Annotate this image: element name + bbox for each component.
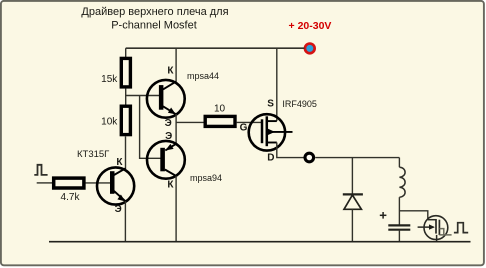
wire S to +V rail (276, 48, 278, 121)
wire input (37, 182, 52, 184)
wire diode top (351, 158, 353, 194)
wire branch to load mosfet (399, 211, 427, 220)
wire output node to inductor (315, 157, 399, 159)
svg-text:+ 20-30V: + 20-30V (289, 20, 332, 32)
transistor KT315G (77, 149, 134, 215)
wire top +V rail (126, 47, 305, 49)
resistor 10k (101, 106, 130, 134)
svg-text:G: G (240, 122, 248, 133)
wire emitter junction vertical (175, 114, 177, 144)
resistor 15k (101, 58, 130, 87)
title text (81, 6, 228, 31)
supply terminal (305, 44, 315, 54)
svg-text:К: К (116, 157, 123, 168)
wire 4.7k to KT315 base (86, 182, 111, 184)
svg-text:Драйвер верхнего плеча для: Драйвер верхнего плеча для (81, 6, 228, 18)
svg-text:КТ315Г: КТ315Г (77, 149, 109, 160)
svg-text:4.7k: 4.7k (61, 192, 81, 203)
svg-text:Э: Э (165, 131, 172, 142)
output pulse symbol (454, 223, 468, 233)
svg-text:Э: Э (165, 118, 172, 129)
input pulse symbol (34, 165, 47, 175)
svg-text:К: К (167, 180, 174, 191)
capacitor + (380, 212, 411, 230)
ground rail wire (49, 241, 471, 243)
wire base link to mpsa94 (140, 96, 161, 159)
wire D to output node (277, 143, 305, 158)
svg-text:К: К (167, 66, 174, 77)
svg-text:P-channel Mosfet: P-channel Mosfet (111, 20, 197, 32)
svg-text:D: D (267, 152, 274, 163)
wire rail to mpsa44 collector (175, 48, 177, 82)
MOSFET IRF4905 (240, 99, 317, 164)
transistor mpsa94 (PNP) (147, 131, 222, 191)
resistor 4.7k (54, 178, 84, 203)
wire base branch to mpsa44 (126, 95, 160, 97)
wire inductor to cap (398, 197, 400, 225)
load MOSFET (418, 216, 452, 242)
wire 15k to 10k (125, 88, 127, 105)
svg-text:15k: 15k (101, 74, 118, 85)
wire rail to 15k (125, 48, 127, 58)
resistor 10 (205, 104, 235, 127)
wire inductor top lead (398, 158, 400, 168)
wire resistor 10 to gate (237, 121, 261, 123)
wire cap to ground (398, 230, 400, 242)
svg-text:S: S (267, 99, 274, 110)
svg-text:mpsa44: mpsa44 (187, 71, 219, 81)
inductor (399, 167, 405, 197)
svg-text:IRF4905: IRF4905 (282, 99, 317, 109)
svg-text:10: 10 (214, 104, 226, 115)
wire diode to ground (351, 209, 353, 241)
transistor mpsa44 (NPN) (147, 66, 219, 130)
wire emitters to resistor 10 (176, 121, 205, 123)
svg-text:mpsa94: mpsa94 (190, 173, 222, 183)
node output (305, 153, 314, 162)
svg-text:10k: 10k (101, 116, 118, 127)
svg-text:Э: Э (115, 204, 122, 215)
wire mpsa94 collector to ground (175, 176, 177, 242)
wire 10k to KT315 collector (125, 136, 127, 169)
wire KT315 emitter to ground (124, 201, 126, 242)
diode (343, 194, 363, 209)
